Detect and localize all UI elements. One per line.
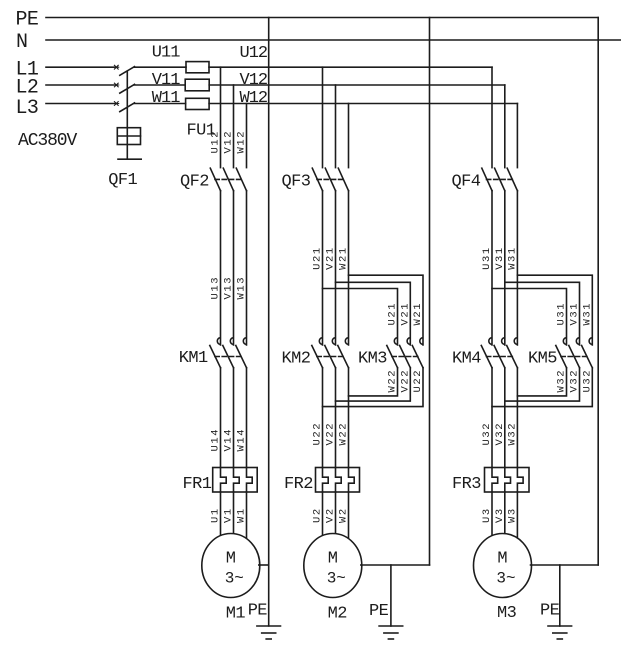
label QF2 <box>180 172 209 191</box>
label W12 <box>240 89 268 108</box>
label wire W22 <box>338 422 350 446</box>
label KM5 feeder U31 <box>556 302 568 326</box>
contactor KM2 pole V <box>325 338 336 368</box>
label wire V31 <box>494 246 506 270</box>
label L3 <box>16 97 39 120</box>
label wire W32 <box>507 422 519 446</box>
label FR3 <box>452 475 481 494</box>
node L1 terminal <box>114 65 119 69</box>
svg-text:U21: U21 <box>387 302 399 326</box>
label wire V22 <box>325 422 337 446</box>
wire V11 line <box>134 84 185 86</box>
svg-text:V22: V22 <box>325 422 337 446</box>
svg-text:W32: W32 <box>507 422 519 446</box>
breaker QF2 pole V <box>223 168 233 191</box>
svg-text:W11: W11 <box>152 89 180 108</box>
label PE at M2 <box>369 602 389 621</box>
wire M2 ground drop <box>390 565 392 626</box>
contactor KM1 pole W <box>236 338 247 368</box>
svg-text:KM2: KM2 <box>282 350 311 369</box>
contactor KM3 pole V <box>400 338 411 368</box>
label KM2 <box>282 350 311 369</box>
wire W21 <box>348 191 350 345</box>
svg-text:FR3: FR3 <box>452 475 481 494</box>
label KM3 output V22 <box>400 369 412 393</box>
label KM5 output U32 <box>582 369 594 393</box>
label KM5 <box>528 350 557 369</box>
svg-text:KM1: KM1 <box>179 349 208 368</box>
label wire U13 <box>210 276 222 300</box>
svg-text:V3: V3 <box>494 507 506 523</box>
wire KM5 output U32 join <box>492 368 592 407</box>
label wire V32 <box>494 422 506 446</box>
label QF4 <box>452 173 481 192</box>
svg-text:PE: PE <box>16 9 39 32</box>
wire branch V31 to KM5 <box>505 282 580 345</box>
wire U32 <box>491 368 493 468</box>
svg-text:W32: W32 <box>556 369 568 393</box>
svg-text:V2: V2 <box>325 507 337 523</box>
thermal relay FR3 element U <box>492 468 498 493</box>
thermal relay FR2 element U <box>323 468 329 493</box>
label 3~ inside M1 <box>225 570 244 588</box>
label wire U21 <box>312 246 324 270</box>
wire PE bus 3 (drop from PE corner to M3) <box>597 18 599 566</box>
label KM3 output U22 <box>412 369 424 393</box>
breaker QF3 pole U <box>312 168 322 191</box>
wire KM3 output U22 join <box>323 368 424 407</box>
thermal relay FR3 box <box>485 468 530 493</box>
label wire V2 <box>325 507 337 523</box>
wire W12 corner to QF4 <box>516 104 518 168</box>
contactor KM5 pole V <box>569 338 580 368</box>
svg-text:W22: W22 <box>338 422 350 446</box>
svg-text:M3: M3 <box>497 604 517 623</box>
wire W32 <box>516 368 518 468</box>
wire V31 <box>504 191 506 345</box>
svg-text:V11: V11 <box>152 71 180 90</box>
svg-text:W21: W21 <box>338 246 350 270</box>
svg-text:W22: W22 <box>387 369 399 393</box>
svg-text:FR2: FR2 <box>284 475 313 494</box>
contactor KM1 pole U <box>210 338 221 368</box>
wire V22 <box>335 368 337 468</box>
label FR1 <box>183 475 212 494</box>
svg-text:V31: V31 <box>569 302 581 326</box>
label wire W2 <box>338 507 350 523</box>
thermal relay FR1 element W <box>247 468 253 493</box>
ground M3 <box>548 626 572 639</box>
label PE at M3 <box>540 602 560 621</box>
wire V12 corner to QF4 <box>504 85 506 168</box>
wire V21 <box>335 191 337 345</box>
contactor KM5 pole W <box>582 338 593 368</box>
wire V13 <box>233 191 235 345</box>
svg-text:3~: 3~ <box>225 570 244 588</box>
label FR2 <box>284 475 313 494</box>
svg-text:U11: U11 <box>152 44 180 63</box>
svg-text:W1: W1 <box>236 507 248 523</box>
breaker QF1 pole L1 blade <box>120 67 135 76</box>
label wire W1 <box>236 507 248 523</box>
wire U3 to motor M3 <box>491 492 493 537</box>
wire U2 to motor M2 <box>322 492 324 537</box>
motor M1 <box>202 534 260 598</box>
wire branch W21 to KM3 <box>349 275 424 345</box>
thermal relay FR2 box <box>316 468 360 493</box>
svg-text:W14: W14 <box>236 428 248 452</box>
svg-text:V12: V12 <box>240 71 268 90</box>
contactor KM4 link <box>487 356 513 358</box>
breaker QF4 link <box>487 178 513 180</box>
thermal relay FR1 element V <box>234 468 240 493</box>
wire U22 <box>322 368 324 468</box>
svg-text:U12: U12 <box>210 130 222 154</box>
motor M3 <box>474 534 532 598</box>
svg-text:PE: PE <box>369 602 389 621</box>
svg-text:U31: U31 <box>481 246 493 270</box>
wire W11 line <box>134 103 185 105</box>
wire KM5 output W32 join <box>517 368 566 396</box>
wire branch W31 to KM5 <box>517 275 592 345</box>
wire M3 PE connection <box>531 564 599 566</box>
wire U1 to motor M1 <box>220 492 222 537</box>
contactor KM2 pole U <box>312 338 323 368</box>
svg-text:KM3: KM3 <box>358 350 387 369</box>
fuse FU1 element U <box>186 62 209 73</box>
wire U11 line <box>134 66 186 68</box>
label KM3 output W22 <box>387 369 399 393</box>
label feeder W12 <box>236 130 248 154</box>
ground M1 <box>257 626 281 639</box>
label QF1 <box>108 171 137 190</box>
thermal relay FR2 element V <box>336 468 342 493</box>
contactor KM3 pole U <box>387 338 398 368</box>
svg-text:W13: W13 <box>236 276 248 300</box>
wire U31 <box>491 191 493 345</box>
svg-text:AC380V: AC380V <box>18 131 78 151</box>
wire M3 ground drop <box>559 565 561 626</box>
wire M2 PE connection <box>361 564 430 566</box>
svg-text:U13: U13 <box>210 276 222 300</box>
wire KM3 output W22 join <box>349 368 398 396</box>
label KM3 feeder V21 <box>400 302 412 326</box>
label QF3 <box>282 173 311 192</box>
thermal relay FR3 element V <box>505 468 511 493</box>
wire L3 feed <box>46 103 114 105</box>
label 3~ inside M2 <box>327 570 346 588</box>
svg-text:W31: W31 <box>582 302 594 326</box>
wire U13 <box>220 191 222 345</box>
svg-text:W3: W3 <box>507 507 519 523</box>
wire branch U31 to KM5 <box>492 289 567 345</box>
label wire U14 <box>210 428 222 452</box>
svg-text:U21: U21 <box>312 246 324 270</box>
svg-text:V21: V21 <box>400 302 412 326</box>
contactor KM3 pole W <box>412 338 423 368</box>
wire KM3 output V22 join <box>336 368 411 401</box>
wire PE bus 2 (drop to M2) <box>429 18 431 566</box>
label KM3 feeder W21 <box>412 302 424 326</box>
breaker QF2 pole W <box>236 168 246 191</box>
label wire U32 <box>481 422 493 446</box>
contactor KM4 pole V <box>494 338 505 368</box>
svg-text:V14: V14 <box>223 428 235 452</box>
contactor KM2 link <box>317 356 344 358</box>
label wire U31 <box>481 246 493 270</box>
ground M2 <box>379 626 403 639</box>
label FU1 <box>187 122 216 141</box>
wire V12 line <box>209 84 505 86</box>
svg-text:W12: W12 <box>240 89 268 108</box>
label M inside M3 <box>497 550 507 569</box>
label KM5 output W32 <box>556 369 568 393</box>
svg-text:W12: W12 <box>236 130 248 154</box>
label AC380V <box>18 131 78 151</box>
label V12 <box>240 71 268 90</box>
contactor KM5 pole U <box>556 338 567 368</box>
svg-text:U3: U3 <box>481 507 493 523</box>
svg-text:QF1: QF1 <box>108 171 137 190</box>
svg-text:V32: V32 <box>494 422 506 446</box>
node L2 terminal <box>114 83 119 87</box>
svg-text:V31: V31 <box>494 246 506 270</box>
svg-text:M: M <box>497 550 507 569</box>
wire QF2 feeder V12 <box>233 85 235 168</box>
svg-text:QF2: QF2 <box>180 172 209 191</box>
thermal relay FR2 element W <box>349 468 355 493</box>
svg-text:U2: U2 <box>312 507 324 523</box>
label KM3 feeder U21 <box>387 302 399 326</box>
wire W2 to motor M2 <box>348 492 350 540</box>
wire N rail <box>46 39 621 41</box>
svg-text:PE: PE <box>248 602 268 621</box>
svg-text:N: N <box>16 31 27 54</box>
svg-text:V1: V1 <box>223 507 235 523</box>
contactor KM4 pole W <box>507 338 518 368</box>
contactor KM1 pole V <box>223 338 234 368</box>
svg-text:U31: U31 <box>556 302 568 326</box>
label U12 <box>240 44 268 63</box>
svg-text:U1: U1 <box>210 507 222 523</box>
svg-text:V21: V21 <box>325 246 337 270</box>
label wire V3 <box>494 507 506 523</box>
label L1 <box>16 59 39 82</box>
label KM5 feeder V31 <box>569 302 581 326</box>
wire W3 to motor M3 <box>516 492 518 539</box>
label wire U1 <box>210 507 222 523</box>
fuse FU1 element W <box>186 98 210 109</box>
label W11 <box>152 89 180 108</box>
label 3~ inside M3 <box>496 570 515 588</box>
label M3 <box>497 604 517 623</box>
wire PE bus 1 (drop to M1 ground) <box>268 18 270 627</box>
svg-text:W2: W2 <box>338 507 350 523</box>
label V11 <box>152 71 180 90</box>
svg-text:U22: U22 <box>312 422 324 446</box>
svg-text:FR1: FR1 <box>183 475 212 494</box>
svg-text:KM4: KM4 <box>452 350 481 369</box>
wire U14 <box>220 368 222 468</box>
breaker QF2 pole U <box>210 168 220 191</box>
svg-text:PE: PE <box>540 602 560 621</box>
label PE at M1 <box>248 602 268 621</box>
wire W13 <box>246 191 248 345</box>
svg-text:L3: L3 <box>16 97 39 120</box>
label feeder U12 <box>210 130 222 154</box>
wire W12 line <box>209 103 517 105</box>
label M inside M1 <box>226 550 236 569</box>
svg-text:QF3: QF3 <box>282 173 311 192</box>
svg-text:U22: U22 <box>412 369 424 393</box>
label M1 <box>226 605 246 624</box>
svg-text:V22: V22 <box>400 369 412 393</box>
wire W31 <box>516 191 518 345</box>
label wire W13 <box>236 276 248 300</box>
breaker QF1 link and release box <box>117 72 141 159</box>
label N rail <box>16 31 27 54</box>
label wire W3 <box>507 507 519 523</box>
wire QF3 feeder U <box>322 67 324 167</box>
wire branch U21 to KM3 <box>323 289 398 345</box>
label U11 <box>152 44 180 63</box>
label KM1 <box>179 349 208 368</box>
svg-text:3~: 3~ <box>327 570 346 588</box>
motor M2 <box>304 534 362 598</box>
label M inside M2 <box>328 550 338 569</box>
svg-text:U32: U32 <box>481 422 493 446</box>
svg-text:V12: V12 <box>223 130 235 154</box>
breaker QF3 pole W <box>338 168 348 191</box>
wire U21 <box>322 191 324 345</box>
breaker QF4 pole V <box>495 168 505 191</box>
svg-text:U14: U14 <box>210 428 222 452</box>
label PE rail <box>16 9 39 32</box>
label wire U3 <box>481 507 493 523</box>
label KM5 output V32 <box>569 369 581 393</box>
contactor KM3 link <box>392 356 418 358</box>
svg-text:M: M <box>328 550 338 569</box>
thermal relay FR1 element U <box>221 468 227 493</box>
label wire U2 <box>312 507 324 523</box>
breaker QF3 pole V <box>325 168 335 191</box>
wire M1 PE connection <box>259 564 269 566</box>
contactor KM4 pole U <box>481 338 492 368</box>
label wire V1 <box>223 507 235 523</box>
svg-text:QF4: QF4 <box>452 173 481 192</box>
label M2 <box>328 605 347 624</box>
wire V3 to motor M3 <box>504 492 506 535</box>
svg-text:U12: U12 <box>240 44 268 63</box>
label wire V21 <box>325 246 337 270</box>
svg-text:W31: W31 <box>507 246 519 270</box>
wire QF2 feeder U12 <box>220 67 222 167</box>
label wire W21 <box>338 246 350 270</box>
wire V14 <box>233 368 235 468</box>
breaker QF4 pole W <box>507 168 517 191</box>
label KM4 <box>452 350 481 369</box>
label KM5 feeder W31 <box>582 302 594 326</box>
breaker QF1 pole L3 blade <box>120 103 135 112</box>
breaker QF4 pole U <box>482 168 492 191</box>
svg-text:V13: V13 <box>223 276 235 300</box>
wire branch V21 to KM3 <box>336 282 411 345</box>
breaker QF1 pole L2 blade <box>120 84 135 93</box>
node L3 terminal <box>114 102 119 106</box>
breaker QF2 link <box>215 178 242 180</box>
svg-text:U32: U32 <box>582 369 594 393</box>
label KM3 <box>358 350 387 369</box>
label feeder V12 <box>223 130 235 154</box>
svg-text:M1: M1 <box>226 605 246 624</box>
wire V2 to motor M2 <box>335 492 337 535</box>
svg-text:V32: V32 <box>569 369 581 393</box>
breaker QF3 link <box>317 178 344 180</box>
label wire U22 <box>312 422 324 446</box>
label wire W31 <box>507 246 519 270</box>
wire U12 corner to QF4 <box>491 67 493 167</box>
wire L1 feed <box>46 66 114 68</box>
svg-text:KM5: KM5 <box>528 350 557 369</box>
label wire W14 <box>236 428 248 452</box>
svg-text:M2: M2 <box>328 605 347 624</box>
label wire V13 <box>223 276 235 300</box>
label L2 <box>16 77 39 100</box>
wire QF3 feeder W <box>348 104 350 168</box>
fuse FU1 element V <box>185 79 209 91</box>
wire QF3 feeder V <box>335 85 337 168</box>
wire V1 to motor M1 <box>233 492 235 535</box>
svg-text:3~: 3~ <box>496 570 515 588</box>
wire KM5 output V32 join <box>505 368 580 401</box>
thermal relay FR1 box <box>213 468 258 493</box>
wire U12 line <box>209 66 492 68</box>
label wire V14 <box>223 428 235 452</box>
wire W22 <box>348 368 350 468</box>
contactor KM1 link <box>215 356 242 358</box>
wire L2 feed <box>46 84 114 86</box>
wire W14 <box>246 368 248 468</box>
wire W1 to motor M1 <box>246 492 248 540</box>
wire QF2 feeder W12 <box>246 104 248 168</box>
wire PE rail (top, turns down at right) <box>46 17 598 19</box>
svg-text:M: M <box>226 550 236 569</box>
svg-text:W21: W21 <box>412 302 424 326</box>
contactor KM5 link <box>561 356 587 358</box>
wire V32 <box>504 368 506 468</box>
thermal relay FR3 element W <box>517 468 523 493</box>
contactor KM2 pole W <box>338 338 349 368</box>
